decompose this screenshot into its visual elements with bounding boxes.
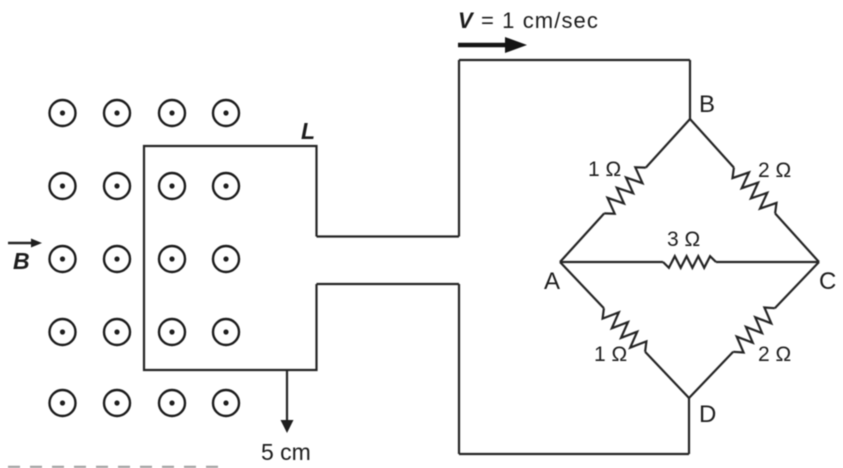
wire up to node D: [688, 398, 690, 454]
wire upper lead: [317, 235, 460, 237]
wire lower lead: [317, 283, 460, 285]
field dots grid (B out of page): [50, 100, 240, 416]
row 4: [50, 319, 76, 345]
row 2: [50, 173, 76, 199]
wire left vertical up: [458, 60, 460, 237]
resistor R_DC 2ohm: wire + zigzag: [689, 352, 733, 398]
resistor R_AC 3ohm: wire + zigzag: [560, 261, 663, 263]
wire left vertical down: [458, 284, 460, 454]
row 3: [50, 246, 76, 272]
svg-text:1 Ω: 1 Ω: [594, 343, 627, 366]
svg-text:V = 1 cm/sec: V = 1 cm/sec: [458, 8, 599, 33]
conducting loop (open on right side): [144, 146, 317, 370]
svg-text:2 Ω: 2 Ω: [758, 343, 791, 366]
row 5: [50, 390, 76, 416]
svg-text:L: L: [301, 118, 315, 144]
5 cm arrow: [286, 371, 288, 424]
wire bottom horizontal: [459, 453, 689, 455]
velocity arrow: [458, 43, 510, 47]
scan artifact streak bottom-left: [8, 466, 222, 468]
svg-text:D: D: [699, 401, 716, 428]
resistor R_BC 2ohm: wire + zigzag: [690, 119, 734, 168]
svg-text:A: A: [544, 268, 560, 295]
wire down to node B: [689, 60, 691, 119]
svg-text:5 cm: 5 cm: [261, 439, 311, 465]
wire top horizontal: [459, 59, 690, 61]
B field arrow: [8, 242, 34, 244]
svg-text:3 Ω: 3 Ω: [667, 228, 700, 251]
row 1: [50, 100, 76, 126]
resistor R_BA 1ohm: wire + zigzag: [646, 119, 690, 168]
svg-text:B: B: [699, 91, 715, 118]
resistor R_AD 1ohm: wire + zigzag: [560, 262, 604, 308]
svg-text:2 Ω: 2 Ω: [758, 159, 791, 182]
svg-text:C: C: [819, 268, 836, 295]
svg-text:B: B: [13, 248, 30, 274]
svg-text:1 Ω: 1 Ω: [588, 158, 621, 181]
